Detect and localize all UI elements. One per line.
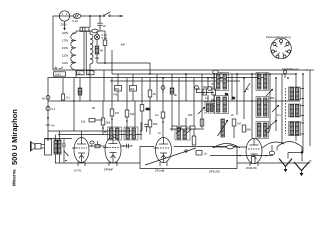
pickup box	[140, 147, 237, 169]
wire x221	[220, 73, 222, 75]
resistor 50k	[102, 101, 104, 118]
wire x282	[281, 74, 283, 144]
wire x237	[236, 74, 238, 115]
svg-text:30: 30	[78, 71, 81, 75]
svg-text:0,1: 0,1	[212, 85, 216, 89]
wire x104	[103, 70, 105, 101]
svg-text:30k: 30k	[130, 87, 135, 91]
pilot lamp	[96, 31, 98, 35]
wire x63	[62, 78, 64, 94]
wire x214	[213, 74, 215, 89]
switch S1	[103, 15, 105, 17]
junction link	[288, 152, 302, 154]
svg-text:50k: 50k	[153, 122, 158, 126]
IF transformer I pair	[215, 73, 229, 91]
switch mid	[245, 83, 250, 91]
svg-text:150V: 150V	[62, 46, 68, 50]
svg-text:500 U Miraphon: 500 U Miraphon	[10, 109, 19, 165]
short line y92	[196, 92, 214, 94]
oval on rail B	[213, 70, 219, 74]
svg-text:ZFymB: ZFymB	[155, 169, 164, 173]
tube V2	[105, 137, 121, 163]
svg-text:4n: 4n	[52, 123, 55, 127]
variable coil w arrow	[221, 119, 224, 137]
wire x232	[231, 74, 233, 101]
svg-text:220V: 220V	[62, 31, 68, 35]
svg-text:10k: 10k	[81, 119, 86, 123]
switch x66	[64, 151, 69, 156]
wire x252	[251, 74, 253, 101]
drop wire x90	[89, 16, 91, 27]
tap 175V	[71, 39, 73, 41]
svg-text:Fassungsbelegung: Fassungsbelegung	[266, 35, 291, 39]
wire top of transformer	[76, 30, 92, 32]
svg-text:0,1: 0,1	[52, 107, 56, 111]
svg-text:20k: 20k	[188, 113, 193, 117]
fuse F1	[70, 15, 74, 17]
wire x141	[140, 122, 142, 140]
IF transformer II pair	[256, 73, 269, 91]
bandfilter A2	[124, 127, 138, 140]
svg-text:40: 40	[100, 49, 103, 53]
svg-text:0,1A: 0,1A	[73, 19, 79, 23]
lower mid line	[48, 130, 131, 132]
speaker	[31, 142, 36, 152]
svg-text:ZF41/30: ZF41/30	[209, 170, 220, 174]
wire x310	[309, 74, 311, 146]
trimmer arrow low	[268, 120, 277, 128]
wire x90	[89, 70, 91, 101]
resistor under V4b	[252, 157, 256, 164]
svg-text:5n: 5n	[246, 87, 249, 91]
resistor x194	[193, 78, 195, 101]
wire x202	[201, 74, 203, 101]
svg-text:UY70: UY70	[74, 169, 82, 173]
electrolytic on left bus	[46, 106, 50, 110]
svg-text:0,3A: 0,3A	[102, 36, 108, 40]
coupling V2-V3	[121, 145, 132, 147]
small boxes on rail	[77, 71, 85, 75]
round caps	[161, 86, 165, 90]
wire M1 left down	[53, 16, 59, 70]
svg-text:5n: 5n	[104, 130, 107, 134]
HT rail A	[53, 69, 308, 71]
wire with fuse to V4	[212, 146, 247, 148]
V arrow 1	[279, 159, 292, 167]
svg-text:125V: 125V	[62, 53, 68, 57]
HT rail D	[110, 80, 240, 82]
wire x74	[73, 78, 75, 102]
resistor 1M x234	[232, 119, 236, 126]
svg-text:2F41/30: 2F41/30	[246, 166, 257, 170]
HT rail B	[112, 73, 296, 75]
title text Minerva	[10, 109, 19, 186]
svg-text:2n: 2n	[103, 24, 106, 28]
tube V1	[74, 138, 89, 163]
small block on transformer top	[80, 27, 89, 31]
resistor 10k	[89, 119, 95, 122]
wire x186	[185, 74, 187, 101]
rail junction dots	[149, 73, 304, 79]
capacitor 2n	[99, 16, 101, 23]
rail component cluster	[283, 70, 286, 73]
svg-text:50: 50	[88, 71, 91, 75]
svg-text:175V: 175V	[62, 39, 68, 43]
resistor 2k x150	[149, 78, 151, 90]
tap 220V	[73, 32, 77, 34]
wire x208	[207, 78, 209, 89]
wire x112	[111, 78, 113, 101]
mid bus	[48, 100, 300, 102]
field coil box	[45, 139, 52, 155]
wire x179	[178, 78, 180, 101]
mains marks	[54, 68, 62, 70]
HT rail C	[48, 77, 266, 79]
transformer core	[83, 32, 85, 71]
resistor 40	[96, 40, 98, 46]
svg-text:2x41: 2x41	[55, 73, 61, 77]
coil stack 3	[289, 122, 301, 136]
wire x142	[141, 78, 143, 101]
resistor 50k x118	[117, 74, 119, 86]
antenna T	[306, 69, 314, 71]
transformer T1 primary winding	[71, 33, 76, 70]
IF block A	[205, 102, 214, 114]
resistor 2x41	[54, 72, 66, 76]
output transformer	[54, 140, 57, 154]
heater rail	[97, 63, 150, 74]
svg-text:50k: 50k	[247, 128, 252, 132]
stub below M1	[64, 21, 66, 28]
svg-text:0,1: 0,1	[205, 96, 209, 100]
tap 150V	[71, 47, 73, 49]
svg-text:50k: 50k	[106, 120, 111, 124]
wire x172	[171, 74, 173, 101]
cap 6n on left bus	[46, 96, 50, 100]
svg-text:0,1: 0,1	[277, 113, 281, 117]
svg-text:10k: 10k	[130, 112, 135, 116]
svg-text:2n: 2n	[225, 92, 228, 96]
wire x296	[295, 74, 297, 87]
wire x258	[257, 73, 259, 79]
sprinkle labels	[92, 87, 281, 135]
svg-text:47k: 47k	[113, 93, 118, 97]
svg-text:2n: 2n	[204, 152, 207, 156]
top link	[45, 138, 73, 140]
stack stubs	[296, 89, 304, 142]
svg-text:6n: 6n	[42, 97, 45, 101]
tap 110V	[71, 62, 73, 64]
svg-text:50: 50	[92, 106, 95, 110]
tube V3	[156, 138, 172, 163]
bandfilter A1	[108, 127, 122, 140]
svg-text:220V: 220V	[61, 23, 67, 27]
wire x105	[104, 31, 106, 40]
bandfilter B	[175, 127, 190, 140]
svg-text:110V: 110V	[62, 61, 68, 65]
svg-text:30k: 30k	[270, 96, 275, 100]
svg-text:Minerva: Minerva	[12, 169, 17, 186]
svg-text:1n: 1n	[158, 131, 161, 135]
tube V4	[246, 139, 262, 164]
arc V4 right	[262, 142, 284, 148]
voltage selector M1	[59, 11, 69, 21]
coil stack 1	[289, 87, 301, 100]
secondary winding	[90, 34, 93, 64]
tap 125V	[71, 54, 73, 56]
wire x163	[162, 78, 164, 101]
bottom bus	[55, 162, 140, 164]
switch row	[170, 128, 204, 130]
wire x157	[156, 74, 158, 101]
svg-text:0,1: 0,1	[155, 113, 159, 117]
left vertical bus	[47, 78, 49, 141]
coil stack 2	[289, 104, 301, 117]
coupling V1-V2	[89, 145, 105, 147]
dome arc	[277, 142, 302, 148]
resistor x80	[79, 78, 81, 88]
fuse F2	[92, 29, 98, 33]
right mid line	[210, 155, 273, 157]
cap x64	[63, 139, 65, 144]
V arrow 2	[294, 162, 309, 171]
socket diagram	[271, 38, 292, 59]
long diagonal wire	[145, 148, 196, 165]
svg-text:ZF4MF: ZF4MF	[104, 168, 114, 172]
resistors above x204-218	[203, 89, 207, 95]
wire x276	[275, 78, 277, 131]
wire x127	[126, 78, 128, 101]
wire x303	[302, 74, 304, 153]
wire x270	[269, 74, 271, 128]
arc bridge	[213, 144, 240, 149]
svg-text:50k: 50k	[203, 85, 208, 89]
svg-text:2n: 2n	[231, 113, 234, 117]
svg-text:0,1: 0,1	[66, 96, 70, 100]
svg-text:4uF: 4uF	[121, 43, 126, 47]
wire x135	[132, 74, 134, 86]
tuning gang dashed link	[285, 88, 287, 134]
resistor row x131-139	[130, 86, 137, 92]
wire fuse to junction	[81, 15, 103, 17]
svg-text:50k: 50k	[115, 87, 120, 91]
